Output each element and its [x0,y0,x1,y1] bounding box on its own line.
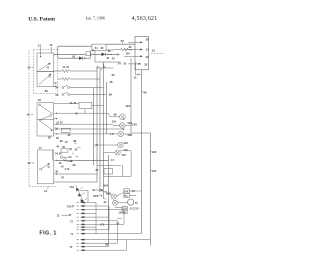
diode chain 74A [76,186,87,205]
svg-text:41 43: 41 43 [70,101,77,105]
lead arrow 11 [62,214,71,216]
connector row 8 [77,229,110,231]
transistor Q94 [112,200,117,205]
svg-text:17: 17 [38,146,42,150]
svg-text:98: 98 [114,112,117,116]
wire relay row 165 [97,164,121,166]
svg-text:34: 34 [95,168,98,172]
dashed lead 12 [151,52,165,54]
wire box43 out [92,105,104,107]
svg-text:98: 98 [108,49,111,53]
svg-text:100: 100 [127,121,132,125]
wire row 174 [56,173,97,175]
wire vertical 96 [95,202,97,233]
svg-text:72: 72 [70,219,73,223]
terminal dots variac [55,82,56,83]
svg-text:76: 76 [135,201,138,205]
svg-text:98: 98 [60,139,63,143]
svg-text:15: 15 [49,43,53,47]
svg-text:20: 20 [48,136,52,140]
relay tick marks [104,192,107,200]
wire c3 out [123,133,131,135]
transistor Q112 [115,150,120,155]
svg-text:42: 42 [69,147,72,151]
switch box S2 [38,150,54,184]
svg-text:51: 51 [95,46,98,50]
wire stub 157 [63,156,69,158]
svg-text:122: 122 [152,150,157,154]
svg-text:124: 124 [152,169,157,173]
component box 43 [79,102,92,108]
wire link c2 [57,124,120,125]
svg-text:11: 11 [57,213,60,217]
junction dots relay [101,190,102,191]
svg-text:92: 92 [92,188,95,192]
relay contact arms [96,190,102,197]
wire variac out upper [54,54,58,56]
wire row 160 [56,159,108,161]
connector row 10 long [77,239,151,241]
wire vertical 117 [116,221,118,243]
component box REL2 [122,210,127,213]
connector row 11 [77,242,118,244]
wire bus riser [57,46,59,58]
svg-text:34 36: 34 36 [55,151,62,155]
svg-text:12: 12 [152,49,156,53]
svg-text:44: 44 [56,145,59,149]
vertical right upper 131 [130,58,132,133]
svg-text:(79: (79 [100,223,104,227]
svg-text:11: 11 [134,75,137,79]
svg-text:BUZZER: BUZZER [130,208,140,210]
svg-text:31: 31 [146,48,150,52]
wire 95 tick [117,218,122,220]
switch S1 leads [54,103,79,134]
connector row 12 [77,246,109,248]
wire box43 drop [84,109,86,114]
transistor Q98 [119,114,125,120]
wire third row 58 [58,57,91,59]
vertical right 141 [140,70,142,234]
tick marks cluster [72,143,81,157]
wire vertical 122 [121,165,123,176]
connector row 1 [77,201,97,203]
vertical trunk 2 [99,70,101,190]
arrow lead [67,160,73,162]
svg-text:30: 30 [146,55,150,59]
svg-text:116: 116 [123,141,128,145]
wire row 68 [100,67,114,69]
svg-text:94: 94 [104,200,107,204]
svg-text:104: 104 [125,52,130,56]
svg-text:FIG. 1: FIG. 1 [39,230,56,236]
transistor Q92 [111,194,116,199]
wire riser 90 [89,50,91,58]
svg-text:71: 71 [70,232,73,236]
wire mid row 79 [58,78,100,80]
control box 12 [135,36,149,69]
svg-text:1 C: 1 C [110,158,114,162]
wire link dotrow [57,128,124,130]
wire vertical 124 [123,210,125,225]
switch contact pair [60,156,62,158]
svg-text:8A: 8A [73,163,76,167]
svg-text:41 45: 41 45 [62,65,69,69]
svg-text:56: 56 [74,148,77,152]
svg-text:108: 108 [127,133,132,137]
svg-text:34: 34 [55,86,58,90]
svg-text:40: 40 [106,56,109,60]
svg-text:10: 10 [27,65,31,69]
svg-text:18: 18 [38,98,42,102]
resistor 41 [62,70,70,73]
wire box top out [106,43,135,45]
component box FOR2 [122,206,128,209]
transistor Q100 [120,123,125,128]
vertical trunk 0 [93,88,95,166]
wire vertical 88 [87,191,89,203]
wire vertical 126 [126,240,128,251]
svg-text:4,563,621: 4,563,621 [132,16,158,22]
svg-text:90: 90 [109,93,113,97]
svg-text:78: 78 [61,175,64,179]
connector row 4 [77,212,97,214]
svg-text:10: 10 [97,66,100,70]
svg-text:26: 26 [45,89,49,93]
wire top bus 52 [58,45,92,47]
switch contact 38 [62,94,64,96]
wire row 62 [95,61,121,63]
svg-text:112: 112 [121,153,126,157]
switch box S1 [37,103,54,136]
wire buzzer link [118,202,128,204]
svg-text:Jan. 7, 1986: Jan. 7, 1986 [86,15,105,21]
svg-text:110: 110 [123,148,128,152]
connector row 3 [77,209,125,211]
svg-text:66: 66 [112,73,115,77]
svg-text:14: 14 [44,189,48,193]
wire link c4 [99,144,118,146]
buzzer 76 [128,199,134,205]
wire link c3 [57,133,118,135]
component box REL [124,194,130,198]
wire mid row 87 [70,87,104,89]
svg-text:24: 24 [118,61,121,65]
transformer unit dashed box [34,50,58,94]
relay box 78 [104,169,113,175]
vertical trunk 4 [106,82,108,134]
svg-text:74A: 74A [69,185,74,189]
svg-text:95: 95 [116,222,119,226]
wire link c5 [103,152,115,154]
wire box bottom out [106,49,114,51]
connector row 9 long [77,233,142,235]
wire relay top [104,175,131,177]
switch S2 leads [54,159,57,161]
wire riser 95 [94,50,96,62]
svg-text:120: 120 [132,123,137,127]
svg-text:44: 44 [69,155,72,159]
wire second row cont [91,53,117,55]
svg-text:96: 96 [143,90,147,94]
vertical trunk 1 [96,66,98,182]
connector row 6 [77,220,118,222]
svg-text:48: 48 [100,46,103,50]
variac upper [37,53,54,72]
wire variac out mid [54,70,62,72]
svg-text:42: 42 [112,56,115,60]
dashed boundary bottom [29,186,58,188]
wire c5 out [120,151,131,177]
svg-text:38: 38 [67,133,70,137]
svg-text:32: 32 [144,62,148,66]
svg-text:42: 42 [65,140,68,144]
wire mid row 94 [70,94,107,96]
svg-text:(74: (74 [95,143,99,147]
svg-text:4 42: 4 42 [64,167,70,171]
svg-text:68: 68 [110,80,113,84]
wire link c1 [57,113,120,117]
svg-text:34: 34 [55,127,58,131]
wire FOR out [129,190,141,192]
svg-text:102: 102 [112,120,117,124]
svg-text:70: 70 [69,245,72,249]
connector row 2 [77,205,110,207]
svg-text:(4: (4 [72,204,75,208]
diode 98 [102,53,106,57]
svg-text:1 C: 1 C [110,132,114,136]
svg-text:ON: ON [99,188,103,192]
wire to FOR2 [115,206,122,208]
svg-text:44: 44 [117,53,120,57]
wire mid row 71 [70,70,97,72]
svg-text:16: 16 [123,62,126,66]
wire c2 out [125,124,131,126]
svg-text:90A: 90A [104,183,109,187]
wire chain out [80,190,89,192]
svg-text:49: 49 [59,161,62,165]
component box 51/48 [92,44,106,50]
wire second row 54 [54,54,86,56]
wire jog 135 [136,62,142,75]
vertical trunk 3 [102,62,104,199]
svg-text:FOR: FOR [124,191,129,193]
terminal stub 15 [50,47,52,53]
connector row 5 [77,216,110,218]
wire vertical 109 [108,206,110,230]
component box 42d [61,149,68,152]
svg-text:72A: 72A [67,204,72,208]
variac lower [37,72,54,87]
wire relay diag 2 [116,193,123,197]
dashed boundary 10 left [28,50,30,187]
svg-text:36: 36 [55,93,58,97]
svg-text:36: 36 [55,169,58,173]
svg-text:90: 90 [129,45,132,49]
component box 36A [61,128,70,132]
svg-text:28: 28 [146,37,150,41]
svg-text:U.S. Patent: U.S. Patent [28,16,55,22]
connector row 13 [77,249,127,251]
wire arrow row 32 [128,63,140,65]
wire relay diag 1 [102,191,112,195]
wire arrow row 28 [128,41,142,43]
svg-text:16: 16 [26,112,30,116]
connector row 7 [77,223,125,225]
wire arrow row 30 [124,55,142,57]
terminal stub 13 [40,47,42,57]
connector row 7b [77,226,97,228]
component box FOR [124,189,130,193]
svg-text:22: 22 [28,161,32,165]
resistor 45 [62,78,70,81]
transistor Q114 [118,142,123,147]
wire row 182 [54,181,97,183]
resistor 49 [114,48,132,51]
wire REL out [129,194,136,196]
diode 62 [79,57,83,60]
vertical trunk 5 [107,155,109,247]
transistor Q108 [118,131,123,136]
wire corner 131-150 [131,133,150,246]
component box 47 [86,52,91,56]
svg-text:41 20: 41 20 [56,120,63,124]
switch contact 36 [62,87,64,89]
wire arrow row 31 [124,49,142,51]
